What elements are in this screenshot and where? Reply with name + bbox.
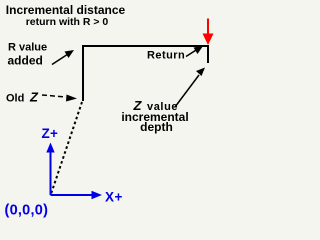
svg-text:Incremental distance: Incremental distance: [6, 3, 126, 17]
origin label: (0,0,0): [5, 203, 49, 219]
title line 1: Incremental distance: [6, 3, 126, 17]
label: R value added: [8, 42, 48, 68]
svg-text:X+: X+: [105, 190, 123, 205]
blue Z axis (vertical) with arrowhead: [46, 143, 54, 196]
label: Old Z: [6, 90, 39, 105]
axis label: Z+: [42, 126, 59, 141]
title line 2: return with R > 0: [26, 16, 109, 28]
tool path: top horizontal line: [82, 45, 209, 47]
svg-text:R value: R value: [8, 42, 47, 54]
tool path: right vertical line (incremental depth segment): [207, 45, 209, 63]
svg-text:depth: depth: [140, 120, 173, 134]
svg-text:return with R > 0: return with R > 0: [26, 16, 109, 28]
arrow from "R value added" to top-left corner: [52, 50, 74, 65]
red plunge arrow at top right: [203, 19, 214, 46]
svg-text:Old: Old: [6, 93, 24, 105]
svg-text:(0,0,0): (0,0,0): [5, 203, 49, 219]
dashed arrow from "Old Z" to solid/dashed junction: [42, 95, 77, 102]
svg-text:added: added: [8, 54, 43, 68]
axis label: X+: [105, 190, 123, 205]
label: Return: [147, 50, 185, 62]
svg-text:Return: Return: [147, 50, 185, 62]
svg-text:Z+: Z+: [42, 126, 59, 141]
blue X axis (horizontal) with arrowhead: [51, 191, 103, 200]
arrow from "Z value" to bottom of right vertical segment: [175, 68, 205, 108]
arrow from "Return" to top-right corner: [186, 46, 203, 57]
tool path: dashed diagonal ramp from origin to old Z: [51, 102, 82, 194]
label: Z value incremental depth: [121, 98, 188, 134]
tool path: left vertical line: [82, 45, 84, 101]
svg-text:Z: Z: [29, 90, 39, 105]
